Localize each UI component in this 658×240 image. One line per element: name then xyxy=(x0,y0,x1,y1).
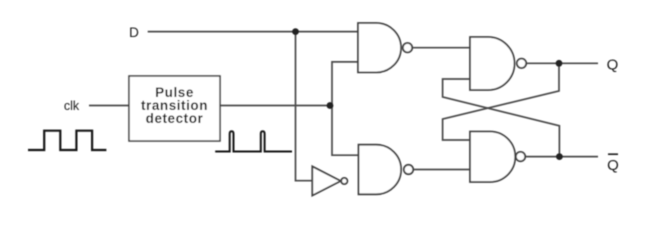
svg-text:Q: Q xyxy=(607,56,619,73)
svg-text:detector: detector xyxy=(146,111,204,126)
svg-text:clk: clk xyxy=(64,99,80,113)
svg-text:D: D xyxy=(129,25,139,40)
svg-text:Q: Q xyxy=(607,157,619,174)
